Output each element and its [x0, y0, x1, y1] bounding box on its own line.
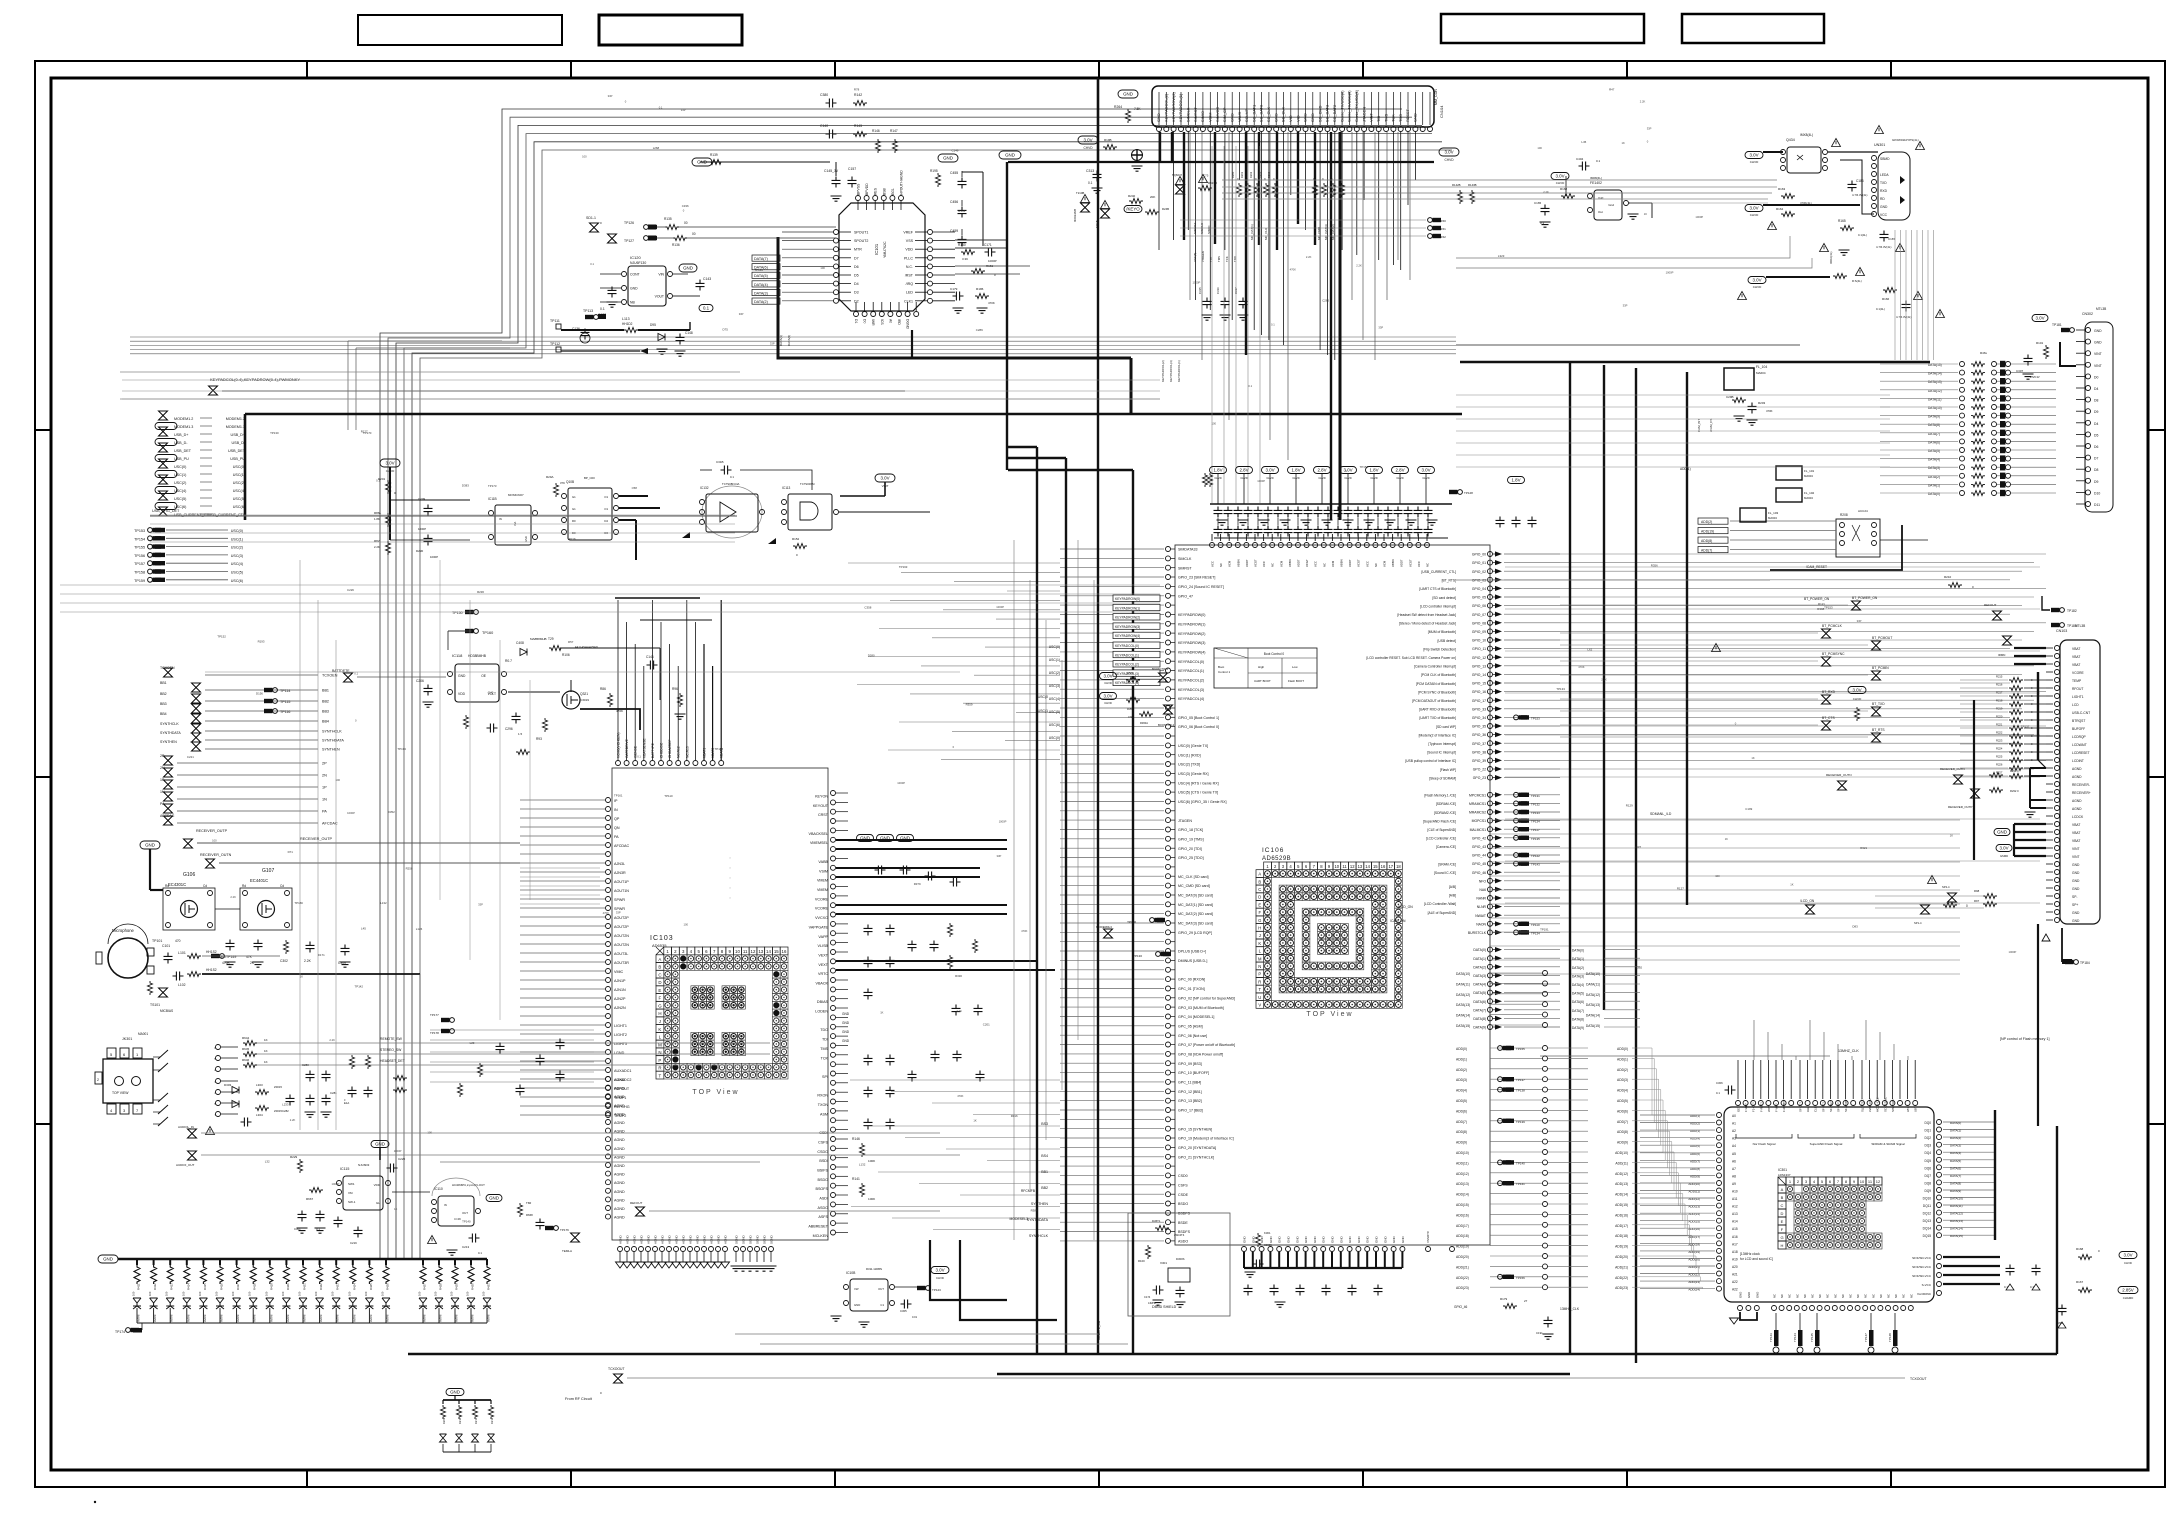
svg-text:AFCDAC: AFCDAC	[614, 844, 629, 848]
svg-text:GP2W0110YPS(4L): GP2W0110YPS(4L)	[1892, 138, 1919, 142]
svg-text:33P: 33P	[739, 312, 744, 316]
svg-text:ADD(1): ADD(1)	[1617, 1057, 1628, 1061]
svg-text:IC301: IC301	[1778, 1168, 1787, 1172]
svg-text:37K: 37K	[560, 481, 565, 485]
svg-text:GPIO_39: GPIO_39	[1472, 759, 1486, 763]
svg-text:TP159: TP159	[134, 579, 145, 583]
svg-text:ADD(6): ADD(6)	[1690, 1152, 1700, 1156]
svg-text:[USB detect]: [USB detect]	[1437, 639, 1456, 643]
svg-text:TOP View: TOP View	[692, 1089, 739, 1096]
svg-text:GND: GND	[1413, 113, 1418, 122]
svg-text:C140: C140	[820, 124, 828, 128]
svg-text:TP176: TP176	[560, 1228, 569, 1232]
svg-text:GND: GND	[489, 1196, 499, 1201]
svg-text:13: 13	[758, 949, 763, 954]
svg-text:/KEYO: /KEYO	[1126, 207, 1140, 212]
svg-text:VCC: VCC	[1262, 561, 1266, 567]
svg-text:MC_DAT(2): MC_DAT(2)	[1331, 224, 1335, 240]
svg-text:DATA(1): DATA(1)	[779, 335, 783, 346]
svg-text:100: 100	[165, 1291, 169, 1296]
svg-text:1.8V: 1.8V	[1369, 468, 1378, 473]
svg-text:L45: L45	[361, 926, 366, 930]
svg-text:Cd: Cd	[280, 884, 284, 888]
svg-text:D300S: D300S	[1176, 1257, 1185, 1261]
svg-text:VMIC: VMIC	[614, 970, 624, 974]
svg-text:CSDE: CSDE	[1178, 1193, 1189, 1197]
svg-text:1000P: 1000P	[430, 555, 438, 559]
svg-text:PA: PA	[160, 802, 165, 806]
svg-text:TP101: TP101	[152, 939, 162, 943]
svg-text:USC(4): USC(4)	[231, 562, 243, 566]
svg-text:R697 0: R697 0	[1208, 181, 1217, 185]
svg-text:USC(3) [Genie RX]: USC(3) [Genie RX]	[1178, 772, 1209, 776]
svg-text:L126: L126	[416, 927, 423, 931]
svg-text:VDD: VDD	[374, 1183, 381, 1187]
svg-text:R413: R413	[170, 1283, 174, 1290]
svg-text:TP157: TP157	[1360, 465, 1369, 469]
svg-text:C315: C315	[1198, 287, 1202, 294]
svg-text:D4: D4	[2094, 422, 2098, 426]
svg-text:D11: D11	[2094, 503, 2100, 507]
svg-text:R200: R200	[1231, 171, 1235, 178]
svg-text:GPO_22: GPO_22	[1473, 768, 1486, 772]
svg-text:100: 100	[381, 1291, 385, 1296]
svg-text:1.8V: 1.8V	[1213, 468, 1222, 473]
svg-text:TP174: TP174	[115, 1330, 125, 1334]
svg-text:SP2-4: SP2-4	[1942, 885, 1950, 889]
svg-text:D9: D9	[2094, 410, 2098, 414]
svg-text:33P: 33P	[616, 911, 621, 915]
svg-text:JTAGEN: JTAGEN	[1201, 251, 1205, 262]
svg-text:TP154: TP154	[134, 537, 145, 541]
svg-text:BSDO: BSDO	[818, 1178, 829, 1182]
svg-text:DBND SHIELD: DBND SHIELD	[1152, 1305, 1177, 1309]
svg-text:GPO_02 [NP control for SuperA: GPO_02 [NP control for SuperAND]	[1178, 996, 1235, 1000]
svg-text:R202: R202	[1249, 171, 1253, 178]
svg-text:A16: A16	[1732, 1235, 1738, 1239]
svg-text:R217: R217	[1996, 691, 2003, 695]
svg-text:DATA(7): DATA(7)	[1572, 1009, 1584, 1013]
svg-text:GPIO_43: GPIO_43	[1472, 845, 1486, 849]
svg-text:[LCD Controller /Wait]: [LCD Controller /Wait]	[1424, 902, 1456, 906]
svg-text:D83: D83	[1852, 924, 1858, 928]
svg-text:470K: 470K	[603, 911, 609, 915]
svg-text:D40: D40	[488, 690, 494, 694]
svg-text:VIO: VIO	[1295, 115, 1300, 122]
svg-text:A21: A21	[1732, 1273, 1738, 1277]
svg-text:D1: D1	[854, 319, 858, 323]
svg-text:TP161: TP161	[614, 793, 623, 797]
svg-text:TP137: TP137	[1516, 1078, 1525, 1082]
svg-text:AGND: AGND	[717, 1234, 721, 1244]
svg-text:VRTC: VRTC	[818, 972, 828, 976]
svg-text:CAM_INT: CAM_INT	[1697, 419, 1701, 432]
svg-text:C149: C149	[952, 149, 959, 153]
svg-text:REFOUT: REFOUT	[1984, 603, 1997, 607]
svg-text:VAUX: VAUX	[1237, 111, 1242, 122]
svg-text:AOUT3L: AOUT3L	[614, 952, 628, 956]
svg-text:USC(3): USC(3)	[1049, 684, 1060, 688]
svg-text:C196: C196	[454, 1217, 461, 1221]
svg-text:GND: GND	[1997, 830, 2007, 835]
svg-text:VBBN: VBBN	[1340, 559, 1344, 567]
svg-text:R164: R164	[1776, 207, 1784, 211]
svg-text:VAPP: VAPP	[818, 935, 828, 939]
svg-text:USB_D+: USB_D+	[231, 433, 245, 437]
svg-text:3.0V: 3.0V	[1749, 153, 1758, 158]
svg-text:KEYPADCOL(0-4),KEYPADROW(0-4),: KEYPADCOL(0-4),KEYPADROW(0-4),PWMONKY	[210, 377, 300, 382]
svg-text:3.0V: 3.0V	[1265, 468, 1274, 473]
svg-text:VDDT: VDDT	[1297, 559, 1301, 567]
svg-text:VSS: VSS	[906, 239, 914, 243]
svg-text:ADD(15): ADD(15)	[1456, 1203, 1469, 1207]
svg-text:KEYPADCOL(1): KEYPADCOL(1)	[1178, 93, 1183, 122]
svg-text:ALE: ALE	[1806, 1107, 1810, 1112]
svg-text:T6R: T6R	[526, 1201, 531, 1205]
svg-text:GND: GND	[1123, 92, 1133, 97]
svg-text:MM_CON: MM_CON	[1434, 89, 1438, 105]
svg-text:ADD(1): ADD(1)	[1690, 1114, 1700, 1118]
svg-text:AGND: AGND	[614, 1078, 625, 1082]
svg-text:BT_PCMIN: BT_PCMIN	[1872, 666, 1889, 670]
svg-text:R179: R179	[1500, 1297, 1508, 1301]
svg-text:DQ14: DQ14	[1923, 1227, 1932, 1231]
svg-text:GND: GND	[943, 156, 953, 161]
svg-text:R0: R0	[572, 519, 576, 523]
svg-text:R139: R139	[710, 153, 718, 157]
svg-text:R429: R429	[455, 1283, 459, 1290]
svg-text:R358: R358	[1127, 707, 1134, 711]
svg-text:HD38BMHB: HD38BMHB	[468, 654, 487, 658]
svg-text:GND: GND	[1880, 205, 1888, 209]
svg-text:VCGT: VCGT	[1408, 559, 1412, 567]
svg-text:R431: R431	[487, 1283, 491, 1290]
svg-text:A17: A17	[1732, 1242, 1738, 1246]
svg-text:[USB pullup control of Interfa: [USB pullup control of Interface IC]	[1405, 759, 1456, 763]
svg-text:NC: NC	[1271, 563, 1275, 567]
svg-text:[SDRAM /CE]: [SDRAM /CE]	[1436, 802, 1456, 806]
svg-text:R193: R193	[258, 640, 265, 644]
svg-text:R644: R644	[242, 1036, 250, 1040]
svg-text:CHVD: CHVD	[1750, 160, 1759, 164]
svg-text:Boot Control 0: Boot Control 0	[1264, 652, 1285, 656]
svg-text:KEYPADCOL(1): KEYPADCOL(1)	[1177, 360, 1181, 382]
svg-text:[13MHz clock: [13MHz clock	[1740, 1252, 1760, 1256]
svg-text:C148: C148	[685, 331, 693, 335]
svg-text:C143: C143	[703, 277, 711, 281]
svg-text:MC_CLK [SD card]: MC_CLK [SD card]	[1178, 875, 1209, 879]
svg-text:33P: 33P	[1623, 304, 1628, 308]
svg-text:KEYPADCOL(3): KEYPADCOL(3)	[1178, 688, 1204, 692]
svg-text:D0: D0	[863, 319, 867, 323]
svg-text:10: 10	[735, 949, 740, 954]
svg-text:AGND: AGND	[696, 1234, 700, 1244]
svg-text:IRMN: IRMN	[1998, 653, 2005, 657]
svg-text:VCGT: VCGT	[1305, 559, 1309, 567]
svg-text:ADD(3): ADD(3)	[1456, 1078, 1467, 1082]
svg-text:SF/F/SD-VCC: SF/F/SD-VCC	[1912, 1265, 1932, 1269]
svg-text:3.0V: 3.0V	[1752, 278, 1761, 283]
svg-text:BB4: BB4	[160, 712, 167, 716]
svg-text:/WR: /WR	[871, 319, 875, 326]
svg-text:USC(0): USC(0)	[231, 529, 243, 533]
svg-text:DATA(15): DATA(15)	[1456, 1024, 1470, 1028]
svg-text:R420: R420	[286, 1283, 290, 1290]
svg-text:USC(6) [GPIO_35 / Genie RX]: USC(6) [GPIO_35 / Genie RX]	[1178, 800, 1227, 804]
svg-text:CSFS: CSFS	[1178, 1183, 1188, 1187]
svg-text:R421: R421	[303, 1283, 307, 1290]
svg-text:BOOTCTRL1: BOOTCTRL1	[1152, 667, 1169, 671]
svg-text:C404: C404	[1576, 157, 1584, 161]
svg-text:DATA(5): DATA(5)	[754, 274, 768, 278]
svg-text:LCDWAIT: LCDWAIT	[2072, 743, 2087, 747]
svg-text:MODESEL3: MODESEL3	[1010, 1217, 1029, 1221]
svg-text:[Sound IC /CE]: [Sound IC /CE]	[1434, 871, 1456, 875]
svg-text:R359: R359	[966, 703, 973, 707]
svg-text:100: 100	[1212, 422, 1217, 426]
svg-text:G: G	[1780, 1235, 1783, 1240]
svg-text:R46x: R46x	[1980, 351, 1988, 355]
svg-text:SPWR: SPWR	[614, 898, 625, 902]
svg-text:ADD(7): ADD(7)	[1617, 1120, 1628, 1124]
svg-text:RES: RES	[874, 187, 878, 195]
svg-text:BSIFS: BSIFS	[817, 1169, 828, 1173]
svg-text:D7: D7	[2094, 457, 2098, 461]
svg-text:1000P: 1000P	[996, 605, 1004, 609]
svg-text:SYNTHDATA: SYNTHDATA	[322, 739, 344, 743]
svg-text:USC(2): USC(2)	[231, 546, 243, 550]
svg-text:470K: 470K	[1578, 665, 1584, 669]
svg-text:R86L: R86L	[374, 511, 382, 515]
svg-text:D2: D2	[604, 519, 608, 523]
svg-text:ADD(5): ADD(5)	[1617, 1099, 1628, 1103]
svg-text:ADD(17): ADD(17)	[1615, 1224, 1628, 1228]
svg-text:R163: R163	[1778, 187, 1786, 191]
svg-text:SC-CE2/NC: SC-CE2/NC	[1883, 1097, 1887, 1112]
svg-text:AGND: AGND	[614, 1147, 625, 1151]
svg-text:GSMD: GSMD	[2000, 854, 2008, 858]
svg-text:USB_D+: USB_D+	[174, 433, 188, 437]
svg-text:ADD(8): ADD(8)	[1617, 1130, 1628, 1134]
svg-text:100: 100	[1537, 146, 1542, 150]
svg-text:TP194: TP194	[397, 747, 406, 751]
svg-text:2N: 2N	[322, 774, 327, 778]
svg-text:PA: PA	[322, 810, 327, 814]
svg-text:CHVD: CHVD	[1083, 146, 1093, 150]
svg-text:ADD(0): ADD(0)	[1617, 1047, 1628, 1051]
svg-text:VCC: VCC	[1880, 213, 1888, 217]
svg-text:R334: R334	[958, 209, 965, 213]
svg-text:E: E	[658, 988, 661, 993]
svg-text:DATA(9): DATA(9)	[1572, 1026, 1584, 1030]
svg-text:D4: D4	[2094, 387, 2098, 391]
svg-text:ADD(2): ADD(2)	[1617, 1068, 1628, 1072]
svg-text:R423: R423	[336, 1283, 340, 1290]
svg-text:AGND: AGND	[724, 1234, 728, 1244]
svg-text:NC: NC	[1788, 1294, 1792, 1298]
svg-text:USC(1): USC(1)	[174, 473, 186, 477]
svg-text:KEYPADCOL(3): KEYPADCOL(3)	[1169, 360, 1173, 382]
svg-text:R97: R97	[1974, 899, 1980, 903]
svg-text:R418: R418	[253, 1283, 257, 1290]
svg-text:A13: A13	[1732, 1212, 1738, 1216]
svg-text:DATA(14): DATA(14)	[1950, 1227, 1963, 1231]
svg-text:4.7/6.3V(4L): 4.7/6.3V(4L)	[1896, 315, 1911, 319]
svg-text:D: D	[1258, 895, 1261, 900]
svg-text:ADD(12): ADD(12)	[1615, 1172, 1628, 1176]
svg-text:MC_DAT(3) [SD card]: MC_DAT(3) [SD card]	[1178, 922, 1213, 926]
svg-text:R398: R398	[1817, 607, 1824, 611]
svg-text:VLISB: VLISB	[818, 944, 829, 948]
svg-text:GND: GND	[1303, 113, 1308, 122]
svg-text:AGND: AGND	[614, 1104, 625, 1108]
svg-text:2.8V: 2.8V	[1395, 468, 1404, 473]
svg-text:F-RST?: F-RST?	[1759, 1102, 1763, 1112]
svg-text:T: T	[1259, 987, 1262, 992]
svg-text:C31B: C31B	[716, 460, 724, 464]
svg-text:[Flip Switch Detection]: [Flip Switch Detection]	[1423, 647, 1456, 651]
svg-text:BTRQST: BTRQST	[2072, 719, 2085, 723]
svg-text:HH1S2: HH1S2	[206, 968, 217, 972]
svg-text:0.1: 0.1	[730, 475, 734, 479]
svg-text:C145_3V: C145_3V	[824, 169, 839, 173]
svg-text:100: 100	[231, 1291, 235, 1296]
svg-text:ADD(7): ADD(7)	[1701, 549, 1712, 553]
svg-text:/CAM_CS: /CAM_CS	[1709, 419, 1713, 432]
svg-text:LGND: LGND	[614, 1051, 625, 1055]
svg-text:CHVD: CHVD	[936, 1276, 944, 1280]
svg-text:GPIO_33: GPIO_33	[1472, 707, 1486, 711]
svg-text:3.0V: 3.0V	[2035, 316, 2044, 321]
svg-text:470K: 470K	[988, 301, 995, 305]
svg-text:RECEIVER_OUTN: RECEIVER_OUTN	[1940, 767, 1965, 771]
svg-text:AGND: AGND	[682, 1234, 686, 1244]
svg-text:AGND: AGND	[614, 1095, 625, 1099]
svg-text:TQ6047: TQ6047	[1172, 173, 1183, 177]
svg-text:SYNTHCLK: SYNTHCLK	[322, 730, 342, 734]
svg-text:B: B	[1781, 1195, 1784, 1200]
svg-text:AOUT2P: AOUT2P	[614, 916, 629, 920]
svg-text:[PCM CLK of Bluetooth]: [PCM CLK of Bluetooth]	[1421, 673, 1456, 677]
svg-text:R0.7: R0.7	[505, 659, 512, 663]
svg-text:C171: C171	[984, 243, 992, 247]
svg-text:TCXOOUT: TCXOOUT	[1910, 1377, 1927, 1381]
svg-text:L29: L29	[470, 1041, 475, 1045]
svg-text:3.0V: 3.0V	[1444, 150, 1453, 155]
svg-text:TP110: TP110	[1531, 923, 1540, 927]
svg-text:BB4: BB4	[322, 720, 329, 724]
svg-text:From RF Circuit: From RF Circuit	[565, 1397, 593, 1401]
svg-text:NC: NC	[1803, 1294, 1807, 1298]
svg-text:RECEIVER_OUTP: RECEIVER_OUTP	[300, 837, 333, 841]
svg-text:A8: A8	[1732, 1174, 1736, 1178]
svg-text:USC(0): USC(0)	[1049, 645, 1060, 649]
svg-text:GPIO_06: GPIO_06	[1472, 604, 1486, 608]
svg-text:KEYPADROW(0): KEYPADROW(0)	[1115, 597, 1140, 601]
svg-text:[SD card detect]: [SD card detect]	[1432, 596, 1456, 600]
svg-text:IC106: IC106	[1262, 847, 1284, 854]
svg-text:100: 100	[336, 778, 341, 782]
svg-text:A11: A11	[1732, 1197, 1738, 1201]
svg-text:DATA(8): DATA(8)	[1928, 423, 1940, 427]
svg-text:C219: C219	[350, 1241, 357, 1245]
svg-text:GND: GND	[524, 536, 528, 542]
svg-text:R379: R379	[914, 882, 921, 886]
svg-text:AGND: AGND	[619, 1234, 623, 1244]
svg-text:BT_TXD: BT_TXD	[1872, 702, 1885, 706]
svg-text:CHVD: CHVD	[1556, 181, 1565, 185]
svg-text:S-VCC: S-VCC	[1922, 1283, 1932, 1287]
svg-text:TP157: TP157	[134, 562, 145, 566]
svg-text:GND: GND	[1310, 113, 1315, 122]
svg-text:KEYPADROW(1): KEYPADROW(1)	[1178, 622, 1206, 626]
svg-text:GPIO_20 [TDI]: GPIO_20 [TDI]	[1178, 847, 1202, 851]
svg-text:USC(6): USC(6)	[231, 579, 243, 583]
svg-text:NB: NB	[630, 301, 635, 305]
svg-text:UART BOOT: UART BOOT	[1254, 679, 1271, 683]
svg-text:C408: C408	[516, 641, 524, 645]
svg-text:18: 18	[1396, 864, 1401, 869]
svg-text:LODEN: LODEN	[815, 1010, 828, 1014]
svg-text:[PCM SYNC of Bluetooth]: [PCM SYNC of Bluetooth]	[1418, 690, 1456, 694]
svg-text:BT_PCMOUT: BT_PCMOUT	[1872, 636, 1892, 640]
svg-text:CSD0: CSD0	[1178, 1174, 1188, 1178]
svg-text:DATA(10): DATA(10)	[1928, 406, 1942, 410]
svg-text:GPIO_18 [TCK]: GPIO_18 [TCK]	[1178, 828, 1203, 832]
svg-text:TMS: TMS	[1383, 113, 1388, 122]
svg-text:2SD4T4: 2SD4T4	[1174, 1233, 1185, 1237]
svg-text:NC: NC	[1849, 1294, 1853, 1298]
svg-text:KEYPADCOL(2): KEYPADCOL(2)	[1115, 663, 1139, 667]
svg-text:ADD(8): ADD(8)	[1701, 539, 1712, 543]
svg-text:[Headset SW detect from Headse: [Headset SW detect from Headset Jack]	[1397, 613, 1456, 617]
svg-text:MC_DAT(0) [SD card]: MC_DAT(0) [SD card]	[1178, 894, 1213, 898]
svg-text:GPC_00 [RXON]: GPC_00 [RXON]	[1178, 978, 1205, 982]
svg-text:Low: Low	[1292, 665, 1298, 669]
svg-text:1K: 1K	[1622, 141, 1625, 145]
svg-text:GPIO_17 [BB3]: GPIO_17 [BB3]	[1178, 1109, 1203, 1113]
svg-text:SIMIO: SIMIO	[1207, 225, 1211, 234]
svg-text:IC103: IC103	[650, 935, 674, 942]
svg-text:Rd: Rd	[242, 884, 246, 888]
svg-text:1000P: 1000P	[394, 1149, 402, 1153]
svg-text:GND: GND	[854, 1303, 860, 1307]
svg-text:BB3: BB3	[322, 710, 329, 714]
svg-text:D: D	[658, 980, 661, 985]
svg-text:SIMRST: SIMRST	[1178, 566, 1192, 570]
svg-text:DQ12: DQ12	[1923, 1212, 1932, 1216]
svg-text:H: H	[658, 1011, 661, 1016]
svg-text:DATA(4): DATA(4)	[1473, 983, 1486, 987]
svg-text:R264: R264	[1114, 105, 1122, 109]
svg-text:L303: L303	[256, 1083, 263, 1087]
svg-text:L132: L132	[859, 1163, 866, 1167]
svg-text:GPIO_05: GPIO_05	[1472, 596, 1486, 600]
svg-text:GPO_07 [Power on/off of Bluet: GPO_07 [Power on/off of Bluetooth]	[1178, 1043, 1235, 1047]
svg-text:DATA(7): DATA(7)	[1928, 432, 1940, 436]
svg-text:100: 100	[434, 1291, 438, 1296]
svg-text:VSSRTC: VSSRTC	[1426, 1230, 1430, 1243]
svg-text:NLNR: NLNR	[1477, 905, 1487, 909]
svg-text:R: R	[1258, 979, 1261, 984]
svg-text:SP-: SP-	[2072, 895, 2078, 899]
svg-text:DATA(11): DATA(11)	[1586, 982, 1600, 986]
svg-text:OUT: OUT	[878, 1287, 884, 1291]
svg-text:14: 14	[1365, 864, 1370, 869]
svg-text:TP177: TP177	[430, 1013, 439, 1017]
svg-text:VSIM: VSIM	[1208, 112, 1213, 122]
svg-text:0.01: 0.01	[912, 1315, 918, 1319]
